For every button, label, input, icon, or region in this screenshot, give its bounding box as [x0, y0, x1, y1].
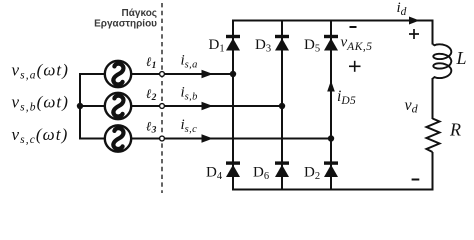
arrow i_d: [409, 17, 420, 25]
wire: phase b line: [79, 105, 282, 107]
inductor L: [433, 44, 452, 78]
source v_s,b: [105, 93, 131, 119]
wire: top dc bus: [232, 20, 433, 22]
svg-text:vs,b(ωt): vs,b(ωt): [12, 93, 70, 114]
svg-text:vs,a(ωt): vs,a(ωt): [12, 61, 70, 82]
wire: phase a line: [79, 73, 233, 75]
wire: load right side bottom: [432, 152, 434, 191]
arrow i_s,b: [202, 102, 214, 110]
svg-text:R: R: [449, 120, 461, 140]
plus sign at load top: [409, 29, 419, 39]
node l2: [160, 104, 165, 109]
diode D1: [226, 35, 240, 51]
diode D6: [275, 161, 289, 177]
minus sign at load bottom: [412, 179, 420, 181]
svg-text:L: L: [456, 48, 467, 68]
wire: phase c line: [79, 138, 331, 140]
diode D3: [275, 35, 289, 51]
wire: bridge leg 1: [232, 20, 234, 189]
label: Πάγκος Εργαστηρίου: [94, 8, 157, 30]
source v_s,c: [105, 125, 131, 151]
source v_s,a: [105, 61, 131, 87]
arrow i_s,c: [202, 134, 214, 142]
wire: bottom dc bus: [232, 189, 433, 191]
arrow i_s,a: [202, 70, 214, 78]
wire: bridge leg 3: [330, 20, 332, 189]
resistor R: [427, 119, 440, 153]
wire: load right side middle: [432, 78, 434, 119]
diode D2: [324, 161, 338, 177]
plus sign of v_AK,5: [349, 61, 361, 72]
node l3: [160, 136, 165, 141]
diode D4: [226, 161, 240, 177]
svg-text:Εργαστηρίου: Εργαστηρίου: [94, 19, 157, 30]
wire: load right side top: [432, 20, 434, 45]
junction phase c / leg 3: [328, 135, 334, 141]
lab bench boundary dashed line: [161, 3, 163, 193]
junction on neutral bus: [77, 103, 83, 109]
svg-text:Πάγκος: Πάγκος: [122, 8, 157, 19]
junction phase a / leg 1: [230, 71, 236, 77]
junction phase b / leg 2: [279, 103, 285, 109]
node l1: [160, 72, 165, 77]
diode D5: [324, 35, 338, 51]
wire: left neutral bus: [79, 74, 81, 139]
minus sign of v_AK,5: [350, 26, 357, 28]
svg-text:vs,c(ωt): vs,c(ωt): [12, 125, 69, 146]
wire: bridge leg 2: [281, 20, 283, 189]
arrow i_D5: [327, 81, 335, 92]
